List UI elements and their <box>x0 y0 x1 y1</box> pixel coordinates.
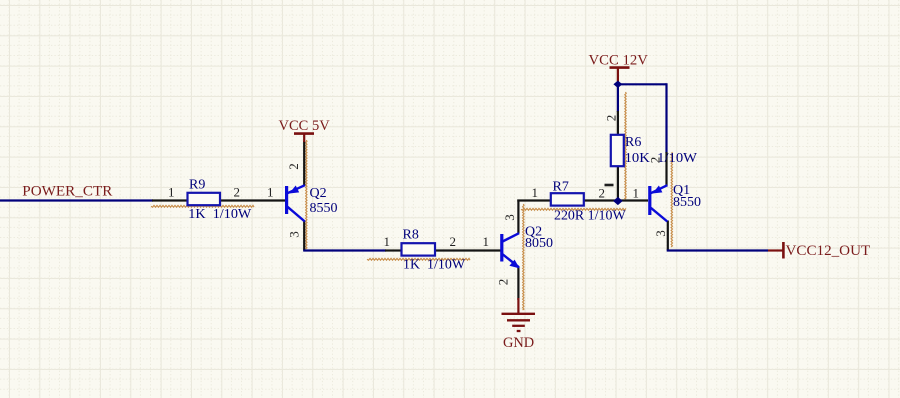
svg-text:VCC12_OUT: VCC12_OUT <box>786 243 871 259</box>
svg-text:2: 2 <box>496 279 511 286</box>
transistor Q2 8050 collector line <box>503 233 520 241</box>
wire Q2 8050 collector pin up <box>517 200 519 234</box>
svg-text:R6: R6 <box>625 135 641 150</box>
wire Q2 collector pin down <box>303 221 305 251</box>
svg-text:8550: 8550 <box>310 201 338 216</box>
transistor Q2 emitter arrow <box>289 186 299 194</box>
svg-text:2: 2 <box>234 184 241 199</box>
wire POWER_CTR net <box>0 199 153 201</box>
transistor Q2 PNP 8550 base bar <box>285 186 288 214</box>
svg-text:R7: R7 <box>553 180 569 195</box>
svg-text:1K 1/10W: 1K 1/10W <box>403 258 466 273</box>
wire Q1 collector to output port <box>667 249 768 251</box>
resistor R9 body <box>188 193 221 205</box>
svg-text:R9: R9 <box>189 178 205 193</box>
resistor R6 body <box>611 135 624 166</box>
svg-text:1: 1 <box>384 234 391 249</box>
svg-text:1: 1 <box>532 185 539 200</box>
transistor Q2 emitter line <box>288 185 305 193</box>
svg-text:2: 2 <box>648 157 663 164</box>
svg-text:POWER_CTR: POWER_CTR <box>22 183 112 199</box>
squiggle along Q1 emitter/collector vertical wires <box>671 152 672 247</box>
port VCC12_OUT bar <box>782 242 785 259</box>
wire VCC loop vertical down to Q1 emitter <box>665 83 667 153</box>
svg-text:1: 1 <box>168 184 175 199</box>
wire port VCC12_OUT stub <box>768 249 784 251</box>
wire GND stem <box>517 298 519 314</box>
svg-text:3: 3 <box>287 231 302 238</box>
svg-text:Q2: Q2 <box>310 186 327 201</box>
wire Q2 8050 collector to R7 pin1 <box>517 199 550 201</box>
wire Q1 collector pin down <box>667 221 669 251</box>
svg-text:GND: GND <box>503 335 534 351</box>
wire R6 pin1 down to node <box>617 166 619 201</box>
svg-text:R8: R8 <box>403 228 419 243</box>
wire R8 pin1 segment <box>385 249 401 251</box>
wire Q1 emitter pin <box>665 152 667 187</box>
transistor Q1 collector line <box>651 208 668 222</box>
junction node R7/R6/Q1 base <box>613 197 623 205</box>
svg-text:2: 2 <box>599 186 606 201</box>
svg-text:3: 3 <box>502 214 517 221</box>
power VCC 5V bar symbol <box>294 132 314 135</box>
svg-text:VCC 12V: VCC 12V <box>589 52 649 68</box>
squiggle along Q2 8050 collector/emitter vertical wire <box>523 204 524 310</box>
svg-text:1K 1/10W: 1K 1/10W <box>188 207 252 222</box>
svg-text:3: 3 <box>653 230 668 237</box>
wire Q2 8050 emitter pin down <box>517 267 519 300</box>
wire R9 pin1 segment <box>152 199 187 201</box>
wire Q2 collector to R8 <box>303 249 386 251</box>
squiggle under R7 net segment <box>521 208 626 210</box>
svg-text:220R 1/10W: 220R 1/10W <box>554 209 626 224</box>
transistor Q1 PNP 8550 base bar <box>648 186 651 215</box>
wire R9 pin2 to Q2 base <box>220 199 286 201</box>
wire VCC 12V node to Q1 loop horizontal <box>616 83 667 85</box>
svg-text:2: 2 <box>604 115 619 122</box>
svg-text:2: 2 <box>286 163 301 170</box>
wire Q2 emitter pin to VCC 5V <box>303 141 305 187</box>
power VCC 12V bar symbol <box>610 66 630 69</box>
svg-text:8550: 8550 <box>673 195 701 210</box>
resistor R7 body <box>551 193 584 205</box>
transistor Q2 8050 emitter line <box>503 254 520 267</box>
svg-text:2: 2 <box>450 234 457 249</box>
svg-text:8050: 8050 <box>525 236 553 251</box>
squiggle under R8 net segment <box>367 258 470 260</box>
squiggle under R9 net segment <box>151 205 254 207</box>
squiggle along Q2 emitter/collector vertical wires <box>306 140 307 249</box>
transistor Q2 8050 emitter arrow <box>509 260 519 269</box>
squiggle along R6 vertical wire <box>625 92 626 199</box>
ground symbol GND <box>502 313 536 315</box>
wire R7 pin2 to node and Q1 base <box>584 199 648 201</box>
wire R8 pin2 to Q2 8050 base <box>436 249 501 251</box>
transistor Q1 emitter line <box>651 185 668 193</box>
resistor R6 pin number 1 rotated <box>605 184 614 187</box>
svg-text:1: 1 <box>633 186 640 201</box>
svg-text:VCC 5V: VCC 5V <box>279 118 331 134</box>
svg-text:1: 1 <box>483 234 490 249</box>
wire R6 pin2 up to VCC node <box>617 86 619 112</box>
junction node at VCC 12V <box>613 81 622 88</box>
resistor R8 body <box>402 243 436 255</box>
transistor Q1 emitter arrow <box>652 186 662 194</box>
transistor Q2 8050 base bar <box>500 234 503 262</box>
svg-text:1: 1 <box>267 184 274 199</box>
transistor Q2 collector line <box>288 207 305 222</box>
